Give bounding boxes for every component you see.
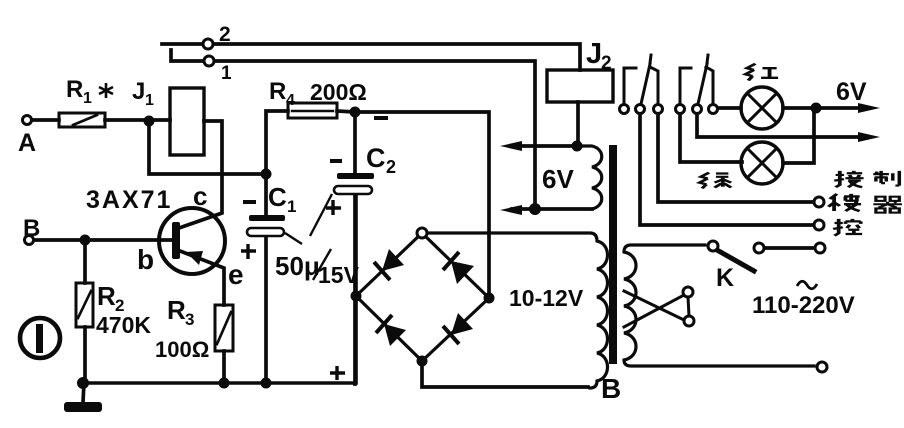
svg-text:110-220V: 110-220V: [752, 292, 855, 319]
svg-text:1: 1: [221, 63, 232, 84]
svg-text:C: C: [268, 182, 287, 212]
svg-text:100Ω: 100Ω: [155, 337, 209, 362]
svg-text:4: 4: [286, 92, 295, 109]
svg-text:3: 3: [185, 310, 194, 329]
svg-text:B: B: [601, 373, 621, 404]
svg-text:6V: 6V: [542, 164, 574, 194]
svg-text:50μ: 50μ: [275, 251, 320, 281]
svg-text:6V: 6V: [836, 78, 867, 106]
svg-text:B: B: [23, 215, 40, 242]
svg-text:15V: 15V: [318, 262, 360, 288]
svg-text:J: J: [132, 78, 145, 105]
svg-text:R: R: [167, 295, 186, 325]
svg-text:2: 2: [601, 53, 612, 74]
svg-text:c: c: [193, 181, 207, 211]
svg-text:C: C: [366, 143, 386, 173]
svg-text:470K: 470K: [96, 312, 151, 338]
svg-text:3AX71: 3AX71: [86, 186, 172, 214]
svg-text:J: J: [586, 38, 602, 70]
svg-text:A: A: [18, 129, 36, 157]
svg-text:K: K: [716, 264, 734, 292]
svg-text:2: 2: [386, 157, 396, 177]
svg-text:200Ω: 200Ω: [310, 79, 367, 105]
svg-text:b: b: [137, 244, 154, 275]
svg-text:2: 2: [219, 23, 231, 46]
svg-text:R: R: [66, 76, 83, 103]
svg-text:1: 1: [287, 197, 296, 216]
svg-text:R: R: [269, 78, 286, 105]
svg-text:1: 1: [83, 90, 92, 107]
svg-text:1: 1: [145, 92, 154, 109]
svg-text:e: e: [228, 259, 244, 290]
svg-text:10-12V: 10-12V: [509, 285, 584, 311]
svg-text:R: R: [97, 281, 116, 311]
